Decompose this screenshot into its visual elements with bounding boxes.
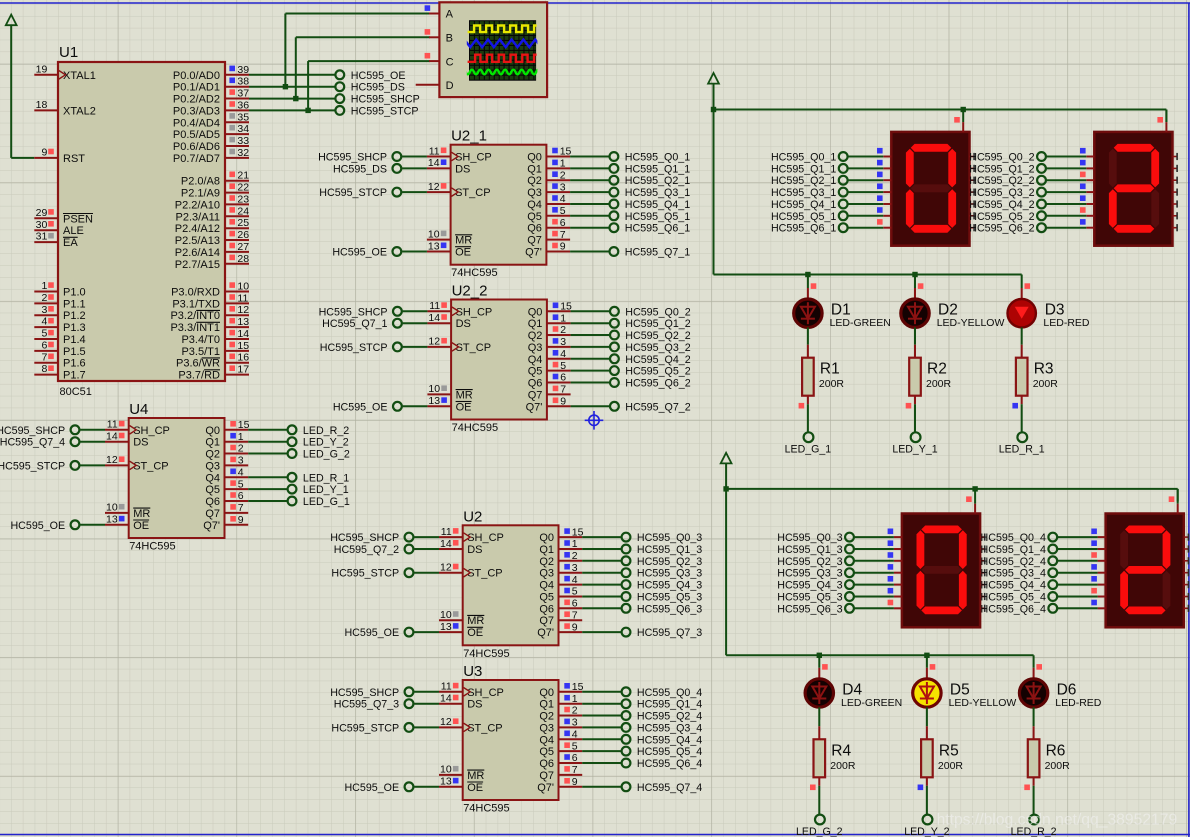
U2_1 pin 6 (Q6) xyxy=(527,217,570,235)
oscilloscope pin B xyxy=(425,29,453,44)
svg-text:OE: OE xyxy=(467,782,483,794)
LED D6 (LED-RED) xyxy=(1019,655,1047,707)
terminal HC595_Q3_4 (output of U3) xyxy=(582,722,702,734)
display DSP1 unconnected right pin 5 xyxy=(970,212,975,219)
wire R4 to terminal LED_G_2 xyxy=(810,777,819,814)
U2 pin 4 (Q4) xyxy=(539,574,582,592)
resistor R1 body xyxy=(802,358,814,396)
terminal HC595_SHCP (input to U2_1) xyxy=(318,152,427,164)
svg-text:74HC595: 74HC595 xyxy=(452,422,498,434)
U1 pin 12 (P3.2/INT0) xyxy=(170,304,249,322)
terminal HC595_Q6_1 (output of U2_1) xyxy=(570,223,690,235)
svg-text:HC595_Q1_2: HC595_Q1_2 xyxy=(969,163,1034,175)
svg-text:HC595_Q0_3: HC595_Q0_3 xyxy=(777,532,842,544)
wire D4 cathode to R4 xyxy=(818,707,820,739)
svg-text:200R: 200R xyxy=(1033,378,1059,390)
svg-text:P3.6/WR: P3.6/WR xyxy=(176,358,220,370)
svg-text:10: 10 xyxy=(440,609,452,621)
svg-text:HC595_DS: HC595_DS xyxy=(351,82,405,94)
power symbol VCC (U1 reset pull-up) xyxy=(6,15,17,26)
svg-text:D: D xyxy=(446,80,454,92)
U1 pin 19 (XTAL1) xyxy=(34,63,96,81)
svg-text:P0.5/AD5: P0.5/AD5 xyxy=(173,129,220,141)
svg-text:13: 13 xyxy=(237,316,249,328)
display DSP4 segment a (lit) xyxy=(1125,526,1166,534)
svg-text:ST_CP: ST_CP xyxy=(456,342,491,354)
U2 pin 14 (DS) xyxy=(439,538,482,556)
svg-text:SH_CP: SH_CP xyxy=(467,687,504,699)
wire display bus 1 drop to DSP2 xyxy=(1165,110,1167,123)
terminal HC595_OE (input to U3) xyxy=(344,782,439,794)
display DSP3 unconnected right pin 6 xyxy=(980,605,985,612)
U1 pin 37 (P0.2/AD2) xyxy=(173,88,249,106)
svg-text:PSEN: PSEN xyxy=(63,213,93,225)
svg-text:35: 35 xyxy=(237,111,249,123)
svg-text:R1: R1 xyxy=(820,361,840,378)
wire D6 cathode to R6 xyxy=(1033,707,1035,739)
display DSP2 segment a (lit) xyxy=(1114,144,1155,152)
IC U4 74HC595 body xyxy=(129,418,225,538)
junction VCC rail / display bus 1 xyxy=(711,107,716,112)
U1 pin 29 (PSEN) xyxy=(34,207,93,225)
wire display bus 1 (horizontal) xyxy=(714,109,1167,111)
svg-text:HC595_Q5_3: HC595_Q5_3 xyxy=(777,592,842,604)
U2 pin 6 (Q6) xyxy=(539,598,582,616)
svg-text:Q6: Q6 xyxy=(539,603,554,615)
svg-text:Q4: Q4 xyxy=(527,199,542,211)
svg-text:MR: MR xyxy=(467,615,484,627)
svg-text:Q7: Q7 xyxy=(539,615,554,627)
U2 pin 11 (SH_CP) xyxy=(439,526,504,544)
U1 pin 14 (P3.4/T0) xyxy=(181,328,249,346)
terminal LED_Y_1 (output of U4) xyxy=(248,484,349,496)
U2_1 pin 13 (OE) xyxy=(427,240,471,258)
svg-text:D1: D1 xyxy=(831,302,851,319)
U2_2 pin 4 (Q4) xyxy=(528,348,571,366)
svg-text:P3.0/RXD: P3.0/RXD xyxy=(171,287,220,299)
svg-text:Q5: Q5 xyxy=(527,211,542,223)
display DSP3 unconnected right pin 2 xyxy=(980,557,985,564)
U4 pin 14 (DS) xyxy=(105,431,148,449)
svg-text:15: 15 xyxy=(572,526,584,538)
display DSP3 unconnected right pin 4 xyxy=(980,581,985,588)
display DSP2 segment input f net HC595_Q5_2 xyxy=(969,207,1094,223)
LED D5 (LED-YELLOW) xyxy=(913,655,941,707)
svg-text:HC595_Q1_1: HC595_Q1_1 xyxy=(625,163,690,175)
svg-text:HC595_Q4_1: HC595_Q4_1 xyxy=(771,199,836,211)
display DSP4 segment c (off) xyxy=(1163,571,1171,610)
wire D2 cathode to R2 xyxy=(914,327,916,357)
svg-text:Q1: Q1 xyxy=(527,163,542,175)
terminal HC595_Q3_1 (output of U2_1) xyxy=(570,187,690,199)
display DSP3 segment input a net HC595_Q0_3 xyxy=(777,529,902,545)
LED D2 (LED-YELLOW) xyxy=(901,275,929,328)
terminal HC595_Q3_3 (output of U2) xyxy=(582,568,702,580)
svg-text:10: 10 xyxy=(428,383,440,395)
svg-text:11: 11 xyxy=(429,145,440,157)
svg-text:HC595_Q5_2: HC595_Q5_2 xyxy=(625,366,690,378)
svg-text:Q1: Q1 xyxy=(205,437,220,449)
U3 pin 5 (Q5) xyxy=(539,740,582,758)
svg-text:31: 31 xyxy=(36,231,48,243)
svg-text:P1.7: P1.7 xyxy=(63,370,86,382)
svg-text:HC595_Q7_1: HC595_Q7_1 xyxy=(322,318,387,330)
svg-text:LED-GREEN: LED-GREEN xyxy=(830,317,891,329)
svg-text:1: 1 xyxy=(572,693,578,705)
svg-text:HC595_Q2_3: HC595_Q2_3 xyxy=(777,556,842,568)
svg-text:4: 4 xyxy=(560,193,566,205)
U2 pin 5 (Q5) xyxy=(539,586,582,604)
svg-text:74HC595: 74HC595 xyxy=(463,803,509,815)
junction display bus 2 to DSP3 xyxy=(972,486,977,491)
U2_1 pin 7 (Q7) xyxy=(527,229,570,247)
U2_1 pin 4 (Q4) xyxy=(527,193,570,211)
svg-text:SH_CP: SH_CP xyxy=(133,425,170,437)
display DSP4 segment input a net HC595_Q0_4 xyxy=(981,529,1106,545)
display DSP4 unconnected right pin 4 xyxy=(1184,581,1189,588)
display DSP3 segment a (lit) xyxy=(921,526,962,534)
wire LED bus 2 (horizontal) xyxy=(726,654,1034,656)
svg-text:3: 3 xyxy=(560,336,566,348)
display DSP4 segment b (lit) xyxy=(1163,530,1171,569)
svg-text:HC595_Q2_4: HC595_Q2_4 xyxy=(981,556,1046,568)
U1 pin 33 (P0.6/AD6) xyxy=(173,135,249,153)
terminal HC595_SHCP (input to U3) xyxy=(330,687,439,699)
svg-text:D4: D4 xyxy=(842,682,862,699)
svg-text:3: 3 xyxy=(560,181,566,193)
LED D1 (LED-GREEN) xyxy=(794,275,822,328)
U4 pin 5 (Q5) xyxy=(205,478,248,496)
U1 pin 8 (P1.7) xyxy=(34,363,85,381)
svg-text:P1.6: P1.6 xyxy=(63,358,86,370)
wire R1 to terminal LED_G_1 xyxy=(799,396,808,432)
terminal HC595_Q4_3 (output of U2) xyxy=(582,580,702,592)
junction on HC595_DS wire xyxy=(283,84,288,89)
oscilloscope trace channel D (green sine wave) xyxy=(464,70,543,75)
display DSP1 segment input f net HC595_Q5_1 xyxy=(771,207,891,223)
svg-text:DS: DS xyxy=(133,437,148,449)
svg-text:2: 2 xyxy=(572,705,578,717)
display DSP3 segment input c net HC595_Q2_3 xyxy=(777,552,902,568)
svg-text:Q3: Q3 xyxy=(205,460,220,472)
svg-text:HC595_Q4_3: HC595_Q4_3 xyxy=(637,580,702,592)
svg-text:P0.6/AD6: P0.6/AD6 xyxy=(173,141,220,153)
terminal HC595_Q2_4 (output of U3) xyxy=(582,711,702,723)
svg-text:37: 37 xyxy=(237,88,249,100)
wire net HC595_STCP to scope channel C xyxy=(308,61,430,110)
schematic sheet border right xyxy=(1188,3,1190,837)
svg-text:9: 9 xyxy=(560,241,566,253)
svg-text:HC595_Q6_2: HC595_Q6_2 xyxy=(969,223,1034,235)
terminal HC595_Q1_2 (output of U2_2) xyxy=(571,318,691,330)
svg-text:SH_CP: SH_CP xyxy=(467,532,504,544)
U2_1 pin 5 (Q5) xyxy=(527,205,570,223)
svg-text:HC595_SHCP: HC595_SHCP xyxy=(318,152,387,164)
svg-text:9: 9 xyxy=(572,621,578,633)
U2_2 pin 11 (SH_CP) xyxy=(427,300,492,318)
svg-text:LED_G_1: LED_G_1 xyxy=(785,444,832,456)
svg-text:74HC595: 74HC595 xyxy=(463,648,509,660)
7-segment display DSP1 body xyxy=(891,132,969,246)
svg-text:P3.7/RD: P3.7/RD xyxy=(178,370,220,382)
svg-text:P0.7/AD7: P0.7/AD7 xyxy=(173,153,220,165)
terminal HC595_Q0_1 (output of U2_1) xyxy=(570,152,690,164)
display DSP3 segment f (lit) xyxy=(917,530,925,569)
display DSP2 segment input c net HC595_Q2_2 xyxy=(969,172,1094,188)
svg-text:HC595_Q3_2: HC595_Q3_2 xyxy=(625,342,690,354)
display DSP3 segment input b net HC595_Q1_3 xyxy=(777,540,902,556)
U2_1 pin 3 (Q3) xyxy=(527,181,570,199)
display DSP3 segment d (lit) xyxy=(921,607,962,615)
svg-text:Q7': Q7' xyxy=(526,401,543,413)
U1 pin 24 (P2.3/A11) xyxy=(176,205,250,223)
svg-text:11: 11 xyxy=(429,300,440,312)
svg-text:Q2: Q2 xyxy=(539,556,554,568)
svg-text:HC595_Q7_3: HC595_Q7_3 xyxy=(334,699,399,711)
svg-text:XTAL1: XTAL1 xyxy=(63,70,96,82)
svg-text:HC595_Q0_1: HC595_Q0_1 xyxy=(771,152,836,164)
LED D3 (LED-RED) xyxy=(1008,275,1036,328)
display DSP4 segment input e net HC595_Q4_4 xyxy=(981,576,1106,592)
svg-text:HC595_Q1_3: HC595_Q1_3 xyxy=(777,544,842,556)
display DSP2 unconnected right pin 6 xyxy=(1173,224,1178,231)
junction on HC595_SHCP wire xyxy=(293,96,298,101)
svg-text:HC595_SHCP: HC595_SHCP xyxy=(330,532,399,544)
U3 pin 11 (SH_CP) xyxy=(439,681,504,699)
display DSP1 segment e (lit) xyxy=(906,189,914,228)
junction LED bus 2 at D5 xyxy=(924,653,929,658)
svg-text:HC595_OE: HC595_OE xyxy=(351,70,406,82)
U1 pin 28 (P2.7/A15) xyxy=(175,253,250,271)
svg-text:HC595_Q6_4: HC595_Q6_4 xyxy=(981,603,1046,615)
U2_1 pin 1 (Q1) xyxy=(527,158,570,176)
svg-text:Q6: Q6 xyxy=(527,223,542,235)
svg-text:6: 6 xyxy=(238,490,244,502)
terminal HC595_SHCP xyxy=(335,94,419,106)
display DSP4 segment input b net HC595_Q1_4 xyxy=(981,540,1106,556)
U2_2 pin 3 (Q3) xyxy=(528,336,571,354)
oscilloscope pin D xyxy=(416,80,454,92)
terminal HC595_Q7_1 (input to U2_2) xyxy=(322,318,427,330)
svg-text:A: A xyxy=(446,9,454,21)
terminal HC595_Q7_1 (output of U2_1) xyxy=(570,247,690,259)
svg-text:HC595_Q4_3: HC595_Q4_3 xyxy=(777,580,842,592)
svg-text:6: 6 xyxy=(572,598,578,610)
terminal HC595_OE (input to U2) xyxy=(344,627,439,639)
svg-text:Q7: Q7 xyxy=(539,770,554,782)
svg-text:HC595_Q4_4: HC595_Q4_4 xyxy=(981,580,1046,592)
wire net HC595_SHCP to scope channel B xyxy=(296,37,430,98)
svg-text:9: 9 xyxy=(560,396,566,408)
svg-text:SH_CP: SH_CP xyxy=(456,306,493,318)
display DSP4 common-anode top pin xyxy=(1169,489,1178,514)
wire U1 P0 to terminal HC595_SHCP xyxy=(249,98,335,100)
terminal HC595_Q5_2 (output of U2_2) xyxy=(571,366,691,378)
power symbol VCC (display/LED group 2) xyxy=(721,453,732,464)
display DSP2 segment e (lit) xyxy=(1109,189,1117,228)
svg-text:HC595_STCP: HC595_STCP xyxy=(319,187,387,199)
display DSP2 unconnected right pin 1 xyxy=(1173,165,1178,172)
terminal LED_R_1 xyxy=(999,432,1045,455)
U1 pin 21 (P2.0/A8) xyxy=(181,170,249,188)
svg-text:HC595_Q3_4: HC595_Q3_4 xyxy=(637,722,702,734)
svg-text:P0.0/AD0: P0.0/AD0 xyxy=(173,70,220,82)
svg-text:HC595_Q7_2: HC595_Q7_2 xyxy=(334,544,399,556)
display DSP2 segment f (off) xyxy=(1109,149,1117,188)
wire U1 P0 to terminal HC595_STCP xyxy=(249,109,335,111)
terminal HC595_Q7_2 (output of U2_2) xyxy=(571,401,691,413)
svg-text:HC595_Q3_4: HC595_Q3_4 xyxy=(981,568,1046,580)
svg-text:3: 3 xyxy=(572,717,578,729)
svg-text:U3: U3 xyxy=(463,663,482,680)
svg-text:HC595_Q0_3: HC595_Q0_3 xyxy=(637,532,702,544)
U3 pin 6 (Q6) xyxy=(539,752,582,770)
terminal HC595_STCP (input to U4) xyxy=(0,460,105,472)
wire R6 to terminal LED_R_2 xyxy=(1024,777,1033,814)
junction on HC595_STCP wire xyxy=(305,108,310,113)
svg-text:Q4: Q4 xyxy=(539,580,554,592)
U2_2 pin 5 (Q5) xyxy=(528,360,571,378)
U1 pin 7 (P1.6) xyxy=(34,351,85,369)
U1 pin 38 (P0.1/AD1) xyxy=(173,76,249,94)
svg-text:R2: R2 xyxy=(927,361,947,378)
display DSP3 segment input g net HC595_Q6_3 xyxy=(777,600,902,616)
svg-text:DS: DS xyxy=(455,163,470,175)
U4 pin 4 (Q4) xyxy=(205,467,248,485)
oscilloscope pin C xyxy=(425,53,454,68)
svg-text:11: 11 xyxy=(441,526,452,538)
svg-text:P3.2/INT0: P3.2/INT0 xyxy=(170,310,220,322)
terminal HC595_Q0_3 (output of U2) xyxy=(582,532,702,544)
svg-text:D2: D2 xyxy=(938,302,958,319)
display DSP3 segment e (lit) xyxy=(917,571,925,610)
svg-text:OE: OE xyxy=(456,401,472,413)
svg-text:ST_CP: ST_CP xyxy=(133,460,168,472)
svg-text:2: 2 xyxy=(41,292,47,304)
svg-text:MR: MR xyxy=(133,508,150,520)
svg-text:7: 7 xyxy=(560,229,566,241)
terminal HC595_Q7_2 (input to U2) xyxy=(334,544,439,556)
U1 pin 39 (P0.0/AD0) xyxy=(173,64,249,82)
U2_1 pin 10 (MR) xyxy=(427,228,472,246)
terminal HC595_Q4_1 (output of U2_1) xyxy=(570,199,690,211)
terminal HC595_OE (input to U2_2) xyxy=(333,401,428,413)
svg-text:HC595_Q5_1: HC595_Q5_1 xyxy=(625,211,690,223)
display DSP1 segment input g net HC595_Q6_1 xyxy=(771,219,891,235)
U4 pin 3 (Q3) xyxy=(205,455,248,473)
svg-text:HC595_STCP: HC595_STCP xyxy=(331,722,399,734)
svg-text:Q7: Q7 xyxy=(528,389,543,401)
svg-text:HC595_Q0_2: HC595_Q0_2 xyxy=(969,152,1034,164)
svg-text:7: 7 xyxy=(572,609,578,621)
svg-text:LED_G_2: LED_G_2 xyxy=(303,449,350,461)
svg-text:19: 19 xyxy=(36,63,48,75)
oscilloscope trace channel B (blue zigzag wave) xyxy=(459,40,548,48)
oscilloscope trace channel A (yellow square wave) xyxy=(468,26,537,33)
terminal HC595_Q6_3 (output of U2) xyxy=(582,603,702,615)
svg-text:HC595_STCP: HC595_STCP xyxy=(0,460,65,472)
svg-text:Q7': Q7' xyxy=(537,627,554,639)
display DSP4 segment input d net HC595_Q3_4 xyxy=(981,564,1106,580)
svg-text:U2_2: U2_2 xyxy=(452,283,488,300)
display DSP4 unconnected right pin 2 xyxy=(1184,557,1189,564)
U2_2 pin 15 (Q0) xyxy=(528,301,572,319)
display DSP1 segment c (lit) xyxy=(948,189,956,228)
svg-text:5: 5 xyxy=(560,205,566,217)
svg-text:14: 14 xyxy=(106,431,118,443)
svg-text:HC595_Q5_4: HC595_Q5_4 xyxy=(637,746,702,758)
terminal HC595_Q2_1 (output of U2_1) xyxy=(570,175,690,187)
terminal HC595_Q3_2 (output of U2_2) xyxy=(571,342,691,354)
svg-text:HC595_Q2_4: HC595_Q2_4 xyxy=(637,711,702,723)
svg-text:U2: U2 xyxy=(463,508,482,525)
svg-text:HC595_Q2_3: HC595_Q2_3 xyxy=(637,556,702,568)
U2 pin 10 (MR) xyxy=(439,609,484,627)
svg-text:HC595_STCP: HC595_STCP xyxy=(320,342,388,354)
svg-text:HC595_Q0_4: HC595_Q0_4 xyxy=(637,687,702,699)
IC U2_2 74HC595 body xyxy=(451,300,547,420)
svg-text:HC595_Q0_4: HC595_Q0_4 xyxy=(981,532,1046,544)
svg-text:XTAL2: XTAL2 xyxy=(63,105,96,117)
svg-text:6: 6 xyxy=(560,217,566,229)
U2_2 pin 13 (OE) xyxy=(427,395,471,413)
svg-text:2: 2 xyxy=(238,443,244,455)
terminal HC595_Q5_4 (output of U3) xyxy=(582,746,702,758)
U1 pin 10 (P3.0/RXD) xyxy=(171,281,249,299)
svg-text:HC595_Q2_1: HC595_Q2_1 xyxy=(771,175,836,187)
display DSP1 segment input d net HC595_Q3_1 xyxy=(771,184,891,200)
terminal LED_R_2 xyxy=(1011,815,1057,837)
IC U2 74HC595 body xyxy=(463,525,559,645)
svg-text:2: 2 xyxy=(560,169,566,181)
svg-text:Q5: Q5 xyxy=(539,746,554,758)
7-segment display DSP4 body xyxy=(1106,514,1184,628)
terminal HC595_Q5_1 (output of U2_1) xyxy=(570,211,690,223)
display DSP1 unconnected right pin 2 xyxy=(970,177,975,184)
svg-text:11: 11 xyxy=(441,681,452,693)
wire U1 P0 to terminal HC595_OE xyxy=(249,74,335,76)
svg-text:4: 4 xyxy=(41,316,47,328)
svg-text:R3: R3 xyxy=(1034,361,1054,378)
svg-text:Q2: Q2 xyxy=(539,711,554,723)
svg-text:HC595_Q7_3: HC595_Q7_3 xyxy=(637,627,702,639)
svg-text:P1.3: P1.3 xyxy=(63,322,86,334)
svg-text:P0.4/AD4: P0.4/AD4 xyxy=(173,117,220,129)
U3 pin 15 (Q0) xyxy=(539,681,583,699)
svg-text:LED-RED: LED-RED xyxy=(1043,317,1090,329)
svg-text:P2.0/A8: P2.0/A8 xyxy=(181,176,220,188)
svg-text:14: 14 xyxy=(237,328,249,340)
oscilloscope trace channel C (red square wave) xyxy=(468,55,537,62)
svg-text:HC595_Q0_2: HC595_Q0_2 xyxy=(625,306,690,318)
terminal HC595_Q7_4 (output of U3) xyxy=(582,782,702,794)
U2_1 pin 2 (Q2) xyxy=(527,169,570,187)
svg-text:29: 29 xyxy=(36,207,48,219)
U1 pin 13 (P3.3/INT1) xyxy=(170,316,249,334)
svg-text:Q4: Q4 xyxy=(539,734,554,746)
svg-text:LED_G_2: LED_G_2 xyxy=(796,826,843,837)
svg-text:P2.6/A14: P2.6/A14 xyxy=(175,247,220,259)
svg-text:HC595_SHCP: HC595_SHCP xyxy=(330,687,399,699)
wire net HC595_DS to scope channel A xyxy=(285,14,430,87)
terminal LED_G_2 xyxy=(796,815,843,837)
svg-text:7: 7 xyxy=(560,384,566,396)
svg-text:HC595_Q3_1: HC595_Q3_1 xyxy=(625,187,690,199)
display DSP1 segment input c net HC595_Q2_1 xyxy=(771,172,891,188)
svg-text:11: 11 xyxy=(237,292,248,304)
terminal HC595_OE xyxy=(335,70,405,82)
U1 pin 23 (P2.2/A10) xyxy=(175,193,250,211)
